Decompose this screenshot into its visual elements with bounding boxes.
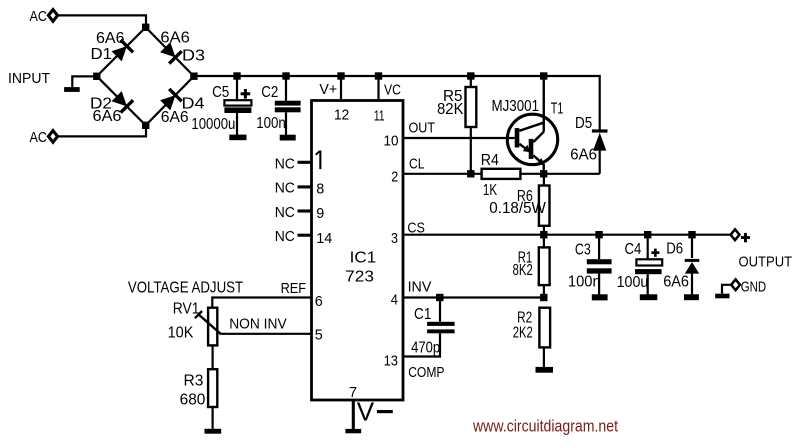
- svg-text:8: 8: [316, 180, 324, 197]
- wire pin2 CL line: [403, 173, 482, 175]
- capacitor C1: [403, 298, 455, 357]
- svg-text:C5: C5: [212, 84, 229, 101]
- svg-text:14: 14: [316, 230, 332, 247]
- svg-text:CL: CL: [409, 155, 425, 172]
- pin NC8 stub: [298, 185, 312, 188]
- svg-text:6: 6: [315, 293, 323, 310]
- resistor R3: [180, 369, 218, 429]
- svg-text:C2: C2: [261, 84, 278, 101]
- node emitter CL: [540, 170, 547, 177]
- ground C4: [640, 294, 658, 300]
- node C2 bus: [282, 72, 289, 79]
- svg-text:C1: C1: [414, 306, 431, 323]
- svg-text:NC: NC: [275, 180, 295, 197]
- svg-text:6A6: 6A6: [663, 274, 689, 291]
- svg-text:1K: 1K: [483, 182, 497, 199]
- node bridge left: [93, 73, 100, 80]
- node pin11 bus: [375, 72, 382, 79]
- svg-text:D3: D3: [182, 48, 205, 65]
- svg-text:6A6: 6A6: [96, 30, 125, 47]
- svg-text:D5: D5: [575, 115, 592, 132]
- svg-text:INPUT: INPUT: [8, 70, 50, 87]
- node bridge top: [142, 24, 149, 31]
- node pin12 bus: [337, 72, 344, 79]
- svg-text:R3: R3: [184, 372, 204, 389]
- wire bridge arms: [97, 27, 194, 125]
- svg-text:6A6: 6A6: [160, 30, 190, 47]
- wire CL line R4 to D5: [520, 173, 599, 175]
- svg-text:www.circuitdiagram.net: www.circuitdiagram.net: [472, 417, 618, 436]
- diode D3: [160, 30, 205, 65]
- wire REF to RV1: [212, 298, 311, 309]
- diode D6: [663, 235, 699, 295]
- label V-: [357, 396, 393, 426]
- capacitor C3: [568, 235, 612, 295]
- resistor R5: [437, 76, 476, 174]
- svg-text:T1: T1: [551, 101, 564, 118]
- wire AC bottom to bridge: [58, 128, 147, 136]
- capacitor C2: [256, 76, 300, 135]
- node bridge bottom: [142, 122, 149, 129]
- wire GND terminal stub: [722, 285, 731, 294]
- node C1 INV: [436, 294, 443, 301]
- terminal output GND: [731, 279, 740, 290]
- svg-text:9: 9: [316, 205, 324, 222]
- node R1 R2 INV: [540, 294, 547, 301]
- wire pin10 OUT to T1 base: [403, 137, 515, 139]
- pin NC1 stub: [298, 161, 312, 164]
- op-amp regulator IC1 723 body: [312, 101, 404, 401]
- svg-text:GND: GND: [741, 278, 767, 295]
- pin 12 stub V+: [340, 76, 342, 101]
- svg-text:0.18/5W: 0.18/5W: [489, 200, 546, 217]
- svg-text:D1: D1: [91, 46, 113, 63]
- svg-text:C4: C4: [625, 241, 642, 258]
- svg-text:V+: V+: [319, 81, 337, 98]
- svg-text:OUT: OUT: [409, 119, 436, 136]
- pin NC9 stub: [298, 209, 312, 212]
- potentiometer RV1: [168, 300, 222, 369]
- svg-text:COMP: COMP: [408, 364, 444, 381]
- ground D6: [684, 294, 699, 300]
- svg-text:V: V: [357, 396, 375, 426]
- svg-text:IC1: IC1: [350, 250, 377, 267]
- svg-text:VC: VC: [384, 82, 401, 99]
- node bridge right: [190, 73, 197, 80]
- wire AC top to bridge: [58, 15, 147, 24]
- svg-text:2K2: 2K2: [513, 325, 533, 342]
- node T1 collector bus: [540, 72, 547, 79]
- svg-text:82K: 82K: [437, 101, 464, 118]
- svg-text:100n: 100n: [568, 274, 601, 291]
- ground C2: [280, 135, 296, 141]
- svg-text:10000u: 10000u: [191, 116, 235, 133]
- node C3 output: [595, 231, 602, 238]
- svg-text:RV1: RV1: [173, 300, 200, 317]
- svg-text:NC: NC: [275, 228, 295, 245]
- wire input ground stub: [72, 76, 97, 87]
- ground R2: [536, 367, 554, 373]
- pin 1 marker: [316, 151, 322, 170]
- node C4 output: [644, 231, 651, 238]
- resistor R6: [489, 174, 549, 235]
- svg-text:723: 723: [345, 269, 374, 286]
- diode D2: [90, 91, 133, 125]
- ground output GND: [715, 294, 729, 299]
- node R5 CL: [467, 170, 474, 177]
- diode D5: [570, 115, 607, 174]
- svg-text:12: 12: [334, 107, 349, 124]
- svg-text:6A6: 6A6: [570, 147, 597, 164]
- wire NON INV wiper to pin5: [221, 333, 311, 335]
- svg-text:5: 5: [315, 326, 323, 343]
- svg-text:3: 3: [391, 230, 398, 247]
- resistor R2: [513, 308, 550, 367]
- svg-text:13: 13: [384, 352, 398, 369]
- ground R3: [205, 429, 222, 434]
- diode D1: [91, 30, 134, 63]
- pin NC14 stub: [298, 234, 312, 237]
- svg-text:D6: D6: [666, 241, 683, 258]
- svg-text:VOLTAGE ADJUST: VOLTAGE ADJUST: [128, 280, 243, 297]
- wire top supply bus: [194, 76, 600, 130]
- capacitor C5: [191, 76, 251, 135]
- svg-text:NC: NC: [275, 204, 295, 221]
- capacitor C4: [617, 235, 663, 295]
- svg-text:R4: R4: [481, 152, 499, 169]
- resistor R4: [481, 152, 521, 199]
- node R6 output: [540, 231, 547, 238]
- ground input: [64, 87, 80, 92]
- node R5 bus: [467, 72, 474, 79]
- ground C3: [592, 294, 608, 300]
- wire output line pin3 CS to + terminal: [403, 234, 731, 236]
- svg-text:C3: C3: [575, 241, 591, 258]
- svg-text:6A6: 6A6: [93, 108, 122, 125]
- svg-text:AC: AC: [30, 8, 48, 25]
- svg-text:470p: 470p: [411, 339, 440, 356]
- node D6 output: [688, 231, 695, 238]
- svg-text:INV: INV: [408, 279, 432, 296]
- svg-text:11: 11: [374, 108, 385, 125]
- svg-text:100u: 100u: [617, 274, 649, 291]
- svg-text:7: 7: [349, 384, 357, 401]
- svg-text:NON INV: NON INV: [229, 316, 287, 333]
- svg-text:680: 680: [180, 392, 206, 409]
- svg-text:10: 10: [384, 133, 399, 150]
- pin 7 stub to ground: [352, 400, 355, 429]
- terminal AC top: [48, 10, 57, 22]
- resistor R1: [513, 235, 550, 298]
- svg-text:NC: NC: [275, 155, 295, 172]
- transistor T1 MJ3001 darlington: [492, 76, 564, 174]
- svg-text:6A6: 6A6: [161, 109, 189, 126]
- svg-text:AC: AC: [30, 129, 48, 146]
- pin 11 stub VC: [377, 76, 379, 101]
- svg-text:2: 2: [391, 168, 398, 185]
- svg-text:8K2: 8K2: [513, 262, 533, 279]
- svg-text:10K: 10K: [168, 325, 194, 342]
- label plus sign: [741, 233, 750, 242]
- terminal AC bottom: [48, 131, 57, 143]
- wire pin4 INV line: [403, 296, 544, 298]
- ground C5: [229, 135, 246, 141]
- svg-text:MJ3001: MJ3001: [492, 98, 540, 115]
- node C5 bus: [233, 72, 240, 79]
- svg-text:100n: 100n: [256, 115, 286, 132]
- svg-text:REF: REF: [281, 280, 307, 297]
- terminal output plus: [731, 229, 740, 240]
- svg-text:4: 4: [391, 292, 398, 309]
- ground pin7: [345, 429, 361, 433]
- svg-text:OUTPUT: OUTPUT: [739, 254, 793, 271]
- diode D4: [160, 89, 205, 126]
